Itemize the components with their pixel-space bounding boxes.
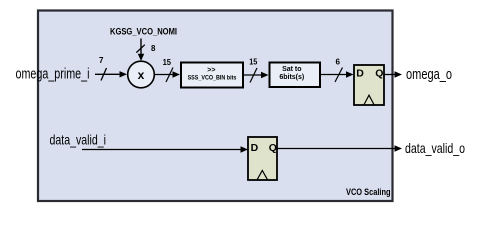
shifter block: [181, 63, 243, 88]
svg-text:D: D: [251, 142, 259, 154]
svg-text:6bits(s): 6bits(s): [279, 74, 304, 81]
svg-text:data_valid_i: data_valid_i: [50, 131, 107, 147]
bus width 15 slash (multiplier to shifter): [166, 68, 173, 83]
svg-text:x: x: [138, 68, 145, 82]
svg-text:15: 15: [249, 58, 257, 67]
svg-text:8: 8: [151, 44, 156, 53]
svg-text:15: 15: [163, 58, 172, 67]
svg-text:data_valid_o: data_valid_o: [405, 140, 465, 156]
svg-text:KGSG_VCO_NOMI: KGSG_VCO_NOMI: [110, 26, 177, 36]
svg-text:Q: Q: [269, 142, 277, 154]
bus width 7 slash: [101, 68, 107, 81]
wire saturator to flip-flop U1: [320, 71, 354, 77]
bus width 15 slash (shifter to saturator): [250, 68, 257, 83]
svg-text:omega_o: omega_o: [406, 66, 452, 83]
module boundary box VCO Scaling: [38, 11, 393, 202]
saturator block: [270, 63, 321, 88]
svg-text:>>: >>: [207, 67, 215, 74]
wire shifter to saturator: [244, 72, 269, 78]
wire KGSG_VCO_NOMI to multiplier: [138, 39, 144, 62]
svg-text:omega_prime_i: omega_prime_i: [16, 66, 90, 83]
flip-flop U1: [354, 65, 384, 105]
svg-text:Sat to: Sat to: [282, 66, 301, 73]
bus width 8 slash: [136, 45, 145, 53]
svg-text:6: 6: [336, 57, 341, 66]
wire omega_prime_i to multiplier: [95, 71, 127, 77]
multiplier: [128, 61, 155, 88]
wire multiplier to shifter: [154, 71, 180, 77]
svg-text:VCO Scaling: VCO Scaling: [346, 187, 391, 197]
svg-text:D: D: [356, 68, 364, 80]
svg-text:SSS_VCO_BIN bits: SSS_VCO_BIN bits: [188, 75, 237, 82]
svg-text:Q: Q: [375, 68, 383, 80]
wire flip-flop U1 Q to omega_o: [384, 71, 402, 77]
wire flip-flop U2 Q to data_valid_o: [277, 145, 402, 151]
wire data_valid_i to flip-flop U2: [82, 146, 248, 152]
bus width 6 slash: [335, 68, 343, 83]
svg-text:7: 7: [99, 56, 104, 65]
flip-flop U2: [248, 137, 277, 180]
